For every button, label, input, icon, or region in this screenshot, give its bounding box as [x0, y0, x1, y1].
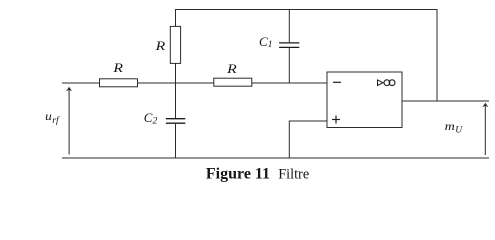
svg-text:m: m	[445, 121, 455, 133]
svg-text:1: 1	[268, 40, 273, 50]
svg-text:rf: rf	[52, 115, 60, 126]
svg-text:R: R	[112, 60, 123, 75]
svg-text:C: C	[144, 110, 153, 125]
svg-text:2: 2	[153, 116, 158, 126]
svg-text:C: C	[259, 34, 268, 49]
svg-text:Figure 11: Figure 11	[206, 165, 270, 182]
svg-text:U: U	[455, 126, 463, 136]
svg-text:Filtre: Filtre	[278, 166, 309, 182]
svg-text:R: R	[154, 38, 165, 53]
svg-text:u: u	[45, 111, 52, 123]
svg-text:R: R	[226, 61, 237, 76]
